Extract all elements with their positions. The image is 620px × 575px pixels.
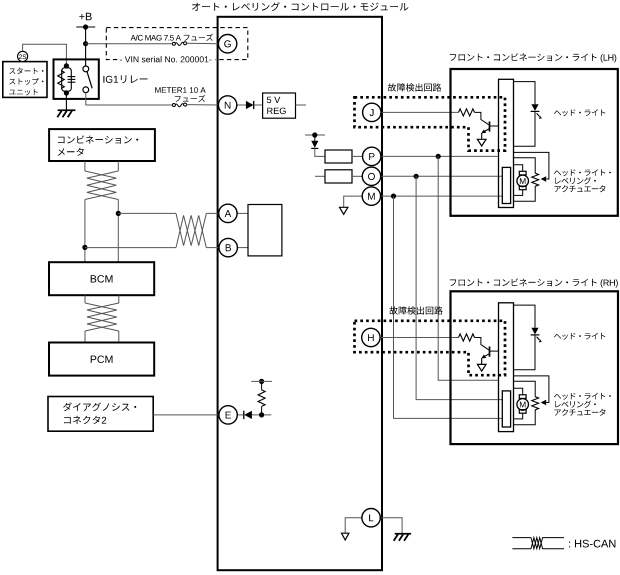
resistor position sensor [514, 381, 536, 397]
diode D1 [246, 101, 254, 109]
wire pair to PCM [84, 331, 86, 343]
5V rail bar [305, 134, 325, 136]
wire twist to B [206, 247, 219, 249]
wire branch to B [85, 247, 176, 249]
pin B [219, 238, 237, 256]
ground signal (open triangle) [340, 207, 348, 214]
wire relay switch to fuse METER1 [86, 93, 173, 105]
BCM box [49, 262, 154, 295]
wire rail to diode [314, 135, 316, 141]
wire R2 to pin O [352, 175, 362, 177]
pin H [362, 328, 380, 346]
ground transistor emitter [477, 364, 486, 371]
wiper arrow [541, 400, 547, 405]
wire bulb feed [514, 82, 536, 105]
wire diode to resistor block R1 [315, 148, 325, 156]
junction 5V rail [312, 132, 317, 137]
label METER1 fuse [155, 87, 206, 93]
pin A [219, 204, 237, 222]
resistor position sensor [514, 158, 536, 174]
wire pair continues to BCM [84, 200, 86, 263]
wire diode junction [252, 414, 271, 416]
wire fuse to pin G [186, 42, 218, 44]
junction P drop [436, 154, 441, 159]
wire E to diode [237, 414, 244, 416]
wire branch to A [118, 212, 176, 214]
fault detect outline LH [355, 97, 506, 150]
junction CAN-L branch [82, 245, 87, 250]
wire L to chassis ground [380, 518, 402, 534]
fuse METER1 10 A [172, 104, 175, 107]
pin J [363, 103, 381, 121]
CAN transceiver block [248, 205, 282, 256]
pin G [218, 35, 236, 53]
wire collector [490, 125, 499, 127]
PCM box [49, 343, 154, 376]
ground transistor emitter [477, 139, 486, 146]
+B supply bar [76, 26, 95, 28]
wire meter left down [84, 161, 86, 171]
twisted pair meter-BCM [85, 171, 116, 200]
diode D3 (left) [243, 411, 245, 419]
transistor Q (NPN) [489, 347, 491, 357]
ground signal L (open triangle) [342, 533, 349, 540]
pin P [363, 147, 381, 165]
head light bulb (LED arrow) [531, 104, 538, 111]
connector (light) [499, 79, 514, 207]
wire L to internal ground [345, 518, 362, 533]
RH light title [450, 278, 618, 287]
pin L [362, 509, 380, 527]
5V rail bar E [251, 380, 272, 382]
wire bulb return [514, 335, 536, 370]
wire P to LH connector [381, 155, 499, 157]
resistor block R1 [325, 150, 352, 163]
module box: auto leveling control module [218, 17, 382, 570]
combination meter box [49, 129, 155, 161]
wire resistor to transistor [475, 112, 489, 124]
pin O [362, 167, 380, 185]
connector (light) [499, 303, 514, 432]
junction O drop [414, 174, 419, 179]
junction +B branch [83, 41, 88, 46]
wire to fuse A/C MAG [86, 43, 173, 45]
RH light box [451, 291, 619, 444]
relay switch contacts [83, 66, 89, 72]
wire M to LH actuator [381, 195, 503, 197]
LH light title [450, 53, 617, 62]
connector 2S [18, 51, 28, 61]
regulator 5V REG box [263, 93, 296, 118]
fault detect outline RH [355, 321, 506, 375]
label actuator [554, 393, 611, 400]
wire diode to regulator [254, 104, 263, 106]
pin M [362, 187, 380, 205]
legend label HS-CAN [569, 540, 615, 548]
LH light box [451, 69, 618, 216]
start-stop unit label [9, 68, 43, 75]
wire 2S to relay coil [23, 44, 67, 66]
wire B to block [237, 247, 248, 249]
relay label IG1 [103, 75, 147, 83]
ground chassis L [395, 533, 411, 535]
wire M to internal ground [344, 196, 363, 207]
connector actuator inner [502, 391, 510, 427]
twisted pair to pins A/B [176, 213, 206, 245]
label fault detect LH [388, 83, 441, 91]
wire H to RH detect [380, 337, 459, 339]
label fault detect RH [389, 306, 442, 314]
wire regulator output stub [296, 104, 307, 106]
junction 5V rail E [259, 379, 264, 384]
resistor R3 pull-up [261, 406, 263, 415]
pin N [218, 96, 236, 114]
motor M leveling [514, 165, 523, 172]
wire coil to ground [65, 93, 67, 110]
transistor Q (NPN) [489, 121, 491, 131]
wire A to block [237, 212, 248, 214]
label head light [554, 109, 605, 116]
stub to R2 [315, 175, 325, 177]
wire bulb feed [514, 305, 536, 328]
wire collector [490, 350, 499, 352]
label head light [554, 333, 605, 340]
junction CAN-H branch [116, 211, 121, 216]
junction M drop [391, 194, 396, 199]
wire N to diode [237, 104, 246, 106]
relay IG1 box [54, 59, 99, 99]
twisted pair BCM-PCM [85, 303, 117, 331]
fuse A/C MAG 7.5 A [172, 42, 175, 45]
motor M leveling [514, 388, 523, 395]
diode D2 (down) [311, 141, 318, 148]
wire R1 to pin P [352, 155, 363, 157]
wire wiper loop [514, 152, 549, 179]
wire O drop to RH [416, 176, 502, 399]
connector actuator inner [502, 167, 510, 203]
emitter with arrow [483, 354, 490, 358]
head light bulb (LED arrow) [531, 328, 538, 335]
junction +B [83, 24, 88, 29]
diagnosis connector 2 box [48, 397, 153, 432]
wire +B down to relay switch [85, 27, 87, 66]
wire resistor to transistor [475, 338, 489, 350]
resistor base [459, 109, 475, 116]
resistor block R2 [325, 170, 352, 183]
label VIN serial (masks dashed line) [118, 54, 216, 64]
relay coil [62, 68, 72, 91]
wiper arrow [541, 176, 547, 181]
wire J to LH detect [381, 111, 459, 113]
node +B label [79, 13, 91, 20]
relay switch blade [87, 71, 92, 88]
wire fuse to pin N [186, 104, 218, 106]
label actuator [554, 169, 611, 176]
resistor base [459, 334, 475, 341]
label A/C MAG fuse [131, 34, 214, 41]
wire bulb return [514, 111, 536, 146]
junction coil top [64, 63, 69, 68]
wire BCM down [84, 295, 86, 303]
wire M drop to RH [394, 196, 503, 418]
pin E [219, 406, 237, 424]
legend twisted pair [512, 537, 531, 539]
wire diag to pin E [153, 414, 219, 416]
junction coil bottom [64, 90, 69, 95]
wire O to LH actuator [381, 175, 503, 177]
wire twist to A [206, 212, 218, 214]
dashed VIN option box [106, 28, 248, 60]
module title [192, 2, 408, 11]
ground chassis under relay [58, 109, 76, 111]
wire P drop to RH [438, 156, 498, 380]
wire wiper loop [514, 376, 549, 403]
emitter with arrow [483, 129, 490, 133]
start-stop unit box [3, 62, 47, 98]
junction E [259, 412, 264, 417]
